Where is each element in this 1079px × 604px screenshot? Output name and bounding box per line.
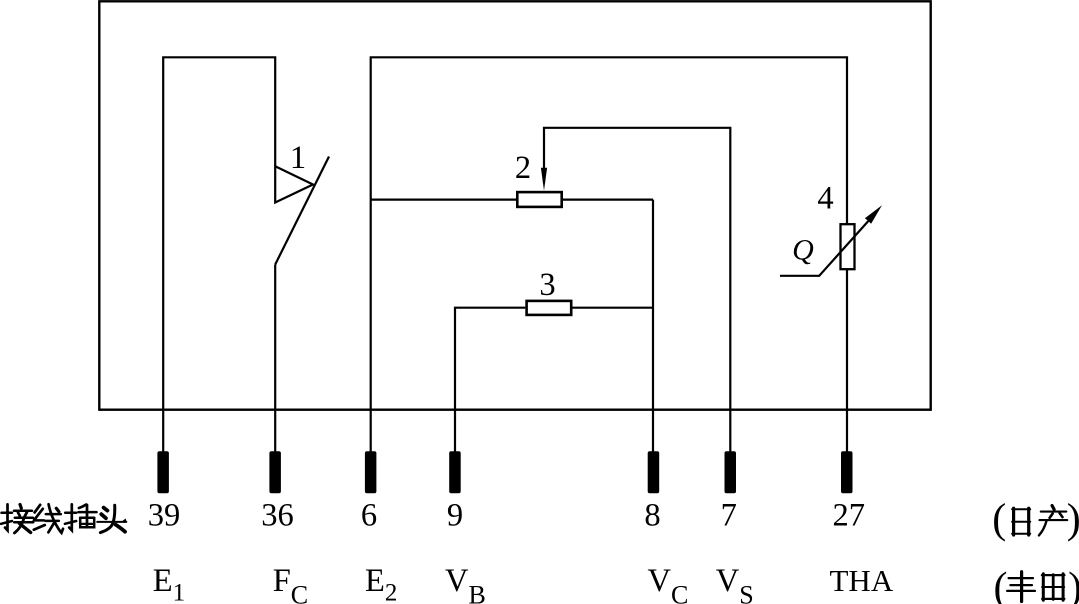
svg-text:VS: VS <box>716 563 754 604</box>
svg-text:36: 36 <box>261 498 294 534</box>
svg-text:6: 6 <box>361 498 377 534</box>
svg-text:(: ( <box>992 497 1006 543</box>
svg-text:27: 27 <box>832 498 865 534</box>
svg-text:VC: VC <box>648 563 689 604</box>
svg-text:(: ( <box>994 565 1008 604</box>
svg-text:VB: VB <box>445 563 486 604</box>
svg-text:3: 3 <box>539 267 555 303</box>
svg-text:): ) <box>1067 497 1079 543</box>
svg-text:E1: E1 <box>153 563 185 604</box>
svg-text:Q: Q <box>792 233 814 266</box>
svg-text:2: 2 <box>515 150 531 186</box>
svg-text:E2: E2 <box>365 563 397 604</box>
svg-text:): ) <box>1068 565 1079 604</box>
svg-text:7: 7 <box>721 498 737 534</box>
svg-text:39: 39 <box>148 498 181 534</box>
svg-text:1: 1 <box>290 140 306 176</box>
svg-text:4: 4 <box>817 181 833 217</box>
svg-text:8: 8 <box>644 498 660 534</box>
svg-text:9: 9 <box>447 498 463 534</box>
svg-text:THA: THA <box>830 563 894 598</box>
svg-text:FC: FC <box>273 563 308 604</box>
